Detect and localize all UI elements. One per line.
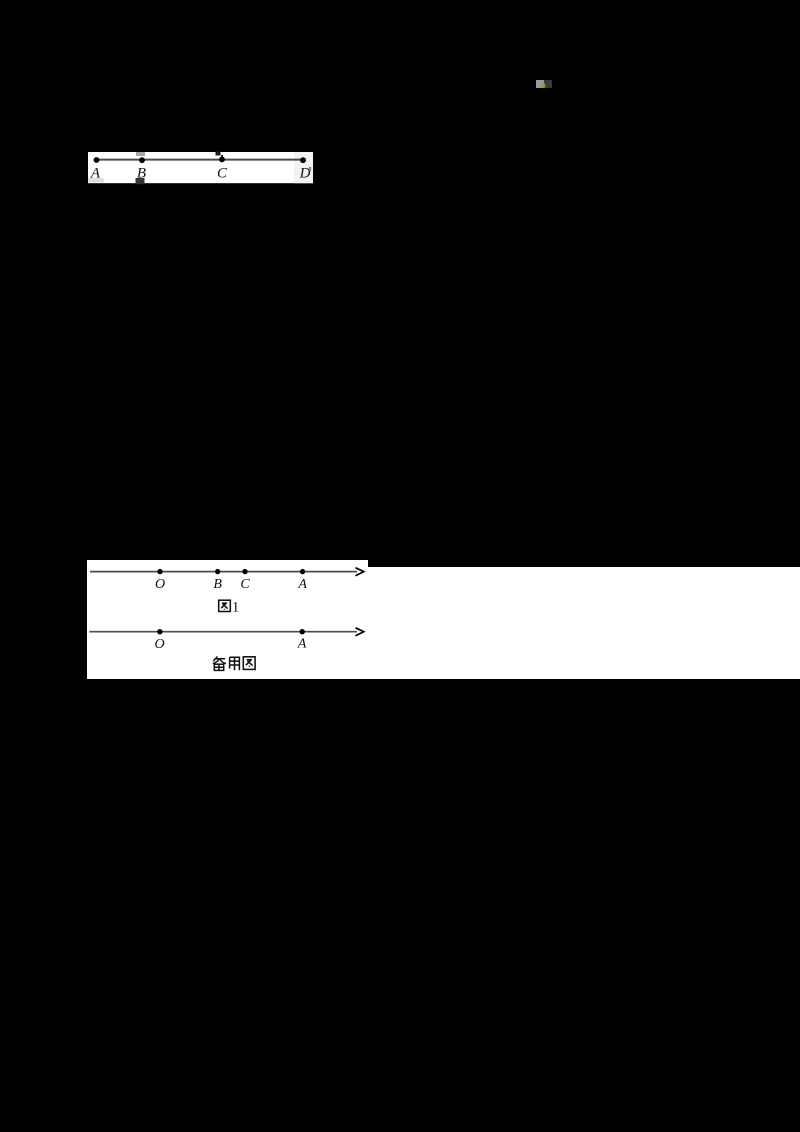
- svg-text:A: A: [90, 166, 101, 182]
- node B: [139, 157, 145, 163]
- number line 1 shaft: [90, 571, 357, 573]
- node A line2: [300, 629, 305, 634]
- svg-text:A: A: [297, 637, 307, 652]
- node C: [219, 157, 225, 163]
- svg-text:B: B: [137, 166, 146, 182]
- light strip near D: [294, 152, 313, 183]
- figure: segment A B C D: [86, 150, 316, 188]
- caption tu glyph: [243, 657, 255, 670]
- arrowhead 2: [356, 628, 364, 636]
- node A: [94, 157, 100, 163]
- svg-text:A: A: [297, 577, 307, 592]
- svg-text:D: D: [299, 166, 311, 182]
- node A line1: [300, 569, 305, 574]
- svg-text:O: O: [155, 577, 165, 592]
- caption yong glyph: [230, 657, 240, 670]
- node O line1: [157, 569, 162, 574]
- small toolbar artifact mark near top center: [536, 80, 544, 88]
- node C line1: [242, 569, 247, 574]
- dark artifact below B: [136, 178, 145, 184]
- spike above C dot: [221, 155, 223, 159]
- number line 2 shaft: [89, 631, 357, 633]
- svg-text:C: C: [240, 577, 250, 592]
- svg-text:O: O: [154, 637, 164, 652]
- caption bei glyph: [213, 657, 226, 671]
- caption tu1 glyph: [219, 600, 231, 611]
- white panel top strip: [87, 560, 368, 568]
- figure: number lines panel: [85, 558, 800, 680]
- node D: [300, 157, 306, 163]
- white panel body: [87, 567, 800, 679]
- svg-text:C: C: [217, 166, 228, 182]
- wire segment AD: [94, 159, 306, 161]
- dark artifact above C: [216, 152, 221, 156]
- svg-text:1: 1: [232, 600, 239, 616]
- light strip bottom-left: [88, 178, 104, 183]
- node B line1: [215, 569, 220, 574]
- blue artifact right of D: [309, 167, 311, 171]
- arrowhead 1: [356, 568, 364, 576]
- gray artifact above B: [136, 152, 145, 156]
- node O line2: [157, 629, 162, 634]
- white panel: [88, 152, 313, 183]
- svg-text:B: B: [213, 577, 222, 592]
